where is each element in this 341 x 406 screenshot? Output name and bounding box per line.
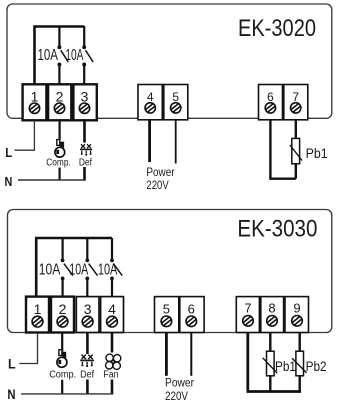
wire terminal 6 power neutral (bottom) — [190, 333, 192, 376]
label Fan (bottom) — [103, 370, 118, 381]
label Power 220V (bottom) — [165, 377, 194, 403]
svg-text:3: 3 — [84, 301, 92, 317]
svg-text:Pb1: Pb1 — [306, 145, 328, 161]
node switch S2 top — [82, 45, 86, 49]
wire terminal 4 to fan (bottom) — [111, 333, 114, 353]
wire fan to N (bottom) — [111, 380, 114, 394]
wire terminal 3 to defrost — [83, 121, 86, 143]
svg-text:2: 2 — [59, 301, 67, 317]
terminal 7 (EK-3020) — [284, 85, 308, 120]
label EK-3030 — [237, 216, 317, 243]
defrost heater icon (snowflake, bottom) — [80, 355, 94, 368]
svg-text:Fan: Fan — [103, 370, 118, 381]
svg-text:7: 7 — [244, 301, 251, 316]
wire bus L to switches (bottom) — [36, 238, 112, 297]
sensor Pb2 (EK-3030) — [292, 351, 306, 376]
node switch S3 top — [61, 259, 65, 263]
label Pb1 (top) — [306, 145, 328, 161]
svg-text:5: 5 — [172, 90, 179, 104]
node switch S1 bottom — [57, 63, 61, 67]
wire terminal 9 to sensor Pb2 — [299, 333, 301, 351]
terminal 3 (EK-3020) — [73, 84, 96, 120]
wire terminal 6 to sensor return — [269, 121, 271, 179]
terminal 8 (EK-3030) — [261, 297, 284, 333]
label Def (bottom) — [80, 370, 94, 381]
svg-text:4: 4 — [147, 90, 154, 104]
terminal 6 (EK-3030) — [180, 297, 204, 333]
svg-text:10A: 10A — [98, 261, 118, 278]
wire terminal 8 to sensor Pb1 — [269, 333, 271, 351]
controller outline EK-3020 — [7, 4, 332, 118]
svg-text:8: 8 — [268, 301, 275, 316]
wire terminal 5 power neutral — [175, 120, 177, 164]
fan M3 icon — [106, 354, 121, 369]
wire switch column 2 upper (3030) — [61, 238, 63, 259]
svg-text:N: N — [5, 174, 13, 189]
wire switch column 3 upper (3030) — [86, 238, 88, 259]
sensor Pb1 (EK-3030) — [263, 351, 277, 376]
svg-text:10A: 10A — [65, 47, 83, 64]
label Comp. (bottom) — [49, 370, 76, 381]
wire switch S4 to terminal 3 — [86, 280, 88, 297]
svg-text:EK-3030: EK-3030 — [237, 216, 317, 243]
node switch S5 bottom — [110, 277, 114, 281]
switch S5 blade 10A — [113, 264, 122, 276]
svg-text:Def: Def — [79, 157, 92, 168]
svg-text:2: 2 — [56, 88, 64, 104]
wire switch column 3 upper — [83, 26, 85, 46]
wire bus L to switches (top) — [35, 27, 85, 85]
wire defrost to N — [83, 167, 86, 181]
wire switch S1 to terminal 2 — [58, 66, 60, 84]
node L (bottom) — [8, 356, 16, 372]
wire sensor Pb1 to bus — [295, 164, 297, 179]
svg-text:1: 1 — [34, 301, 42, 317]
wire terminal 2 to compressor — [58, 121, 60, 140]
svg-text:4: 4 — [108, 301, 116, 317]
svg-text:9: 9 — [293, 301, 300, 316]
svg-text:N: N — [7, 386, 15, 402]
wire N bus (bottom) — [21, 393, 113, 395]
terminal 4 (EK-3030) — [101, 297, 124, 333]
switch S1 blade 10A — [61, 50, 69, 62]
node switch S4 top — [85, 259, 89, 263]
node L (top) — [5, 145, 12, 160]
wire terminal 2 to compressor (bottom) — [61, 333, 63, 352]
node N (top) — [5, 174, 13, 189]
svg-text:7: 7 — [292, 90, 299, 104]
svg-text:3: 3 — [81, 88, 89, 104]
value label 10A (S5) — [98, 261, 118, 278]
terminal 5 (EK-3030) — [155, 297, 179, 333]
label EK-3020 — [238, 15, 316, 42]
node switch S3 bottom — [61, 277, 65, 281]
terminal 6 (EK-3020) — [259, 85, 283, 120]
svg-text:L: L — [8, 356, 16, 372]
terminal 3 (EK-3030) — [76, 297, 99, 333]
svg-text:6: 6 — [267, 90, 274, 104]
wire terminal 5 power live (bottom) — [165, 333, 168, 376]
svg-text:10A: 10A — [38, 47, 59, 64]
wire switch column 2 upper — [58, 26, 60, 46]
svg-text:Power: Power — [146, 167, 174, 179]
wire defrost to N (bottom) — [86, 380, 89, 394]
terminal 2 (EK-3030) — [51, 297, 74, 333]
sensor Pb1 (EK-3020) — [290, 138, 302, 163]
wire sensor bottom bus (top) — [269, 177, 296, 179]
wire N bus (top) — [18, 179, 86, 181]
label Power 220V (top) — [146, 167, 174, 192]
terminal 2 (EK-3020) — [48, 84, 71, 120]
svg-text:10A: 10A — [39, 261, 61, 278]
node switch S2 bottom — [82, 63, 86, 67]
wire switch column 4 upper (3030) — [111, 238, 113, 259]
wire terminal 3 to defrost (bottom) — [86, 333, 89, 354]
value label 10A (S4) — [69, 261, 88, 278]
compressor M2 icon — [57, 350, 67, 368]
defrost heater icon (snowflake) — [80, 144, 92, 156]
wire switch S2 to terminal 3 — [83, 66, 85, 84]
svg-text:10A: 10A — [69, 261, 88, 278]
wire sensor Pb1 to bus (bottom) — [269, 376, 271, 392]
label Pb2 (bottom) — [306, 358, 327, 374]
svg-text:Def: Def — [80, 370, 94, 381]
terminal 7 (EK-3030) — [236, 297, 259, 333]
switch S2 blade 10A — [86, 50, 94, 62]
wire compressor to N (bottom) — [61, 380, 63, 394]
wire switch S3 to terminal 2 — [61, 280, 63, 297]
svg-text:5: 5 — [163, 301, 170, 316]
label Comp. — [46, 158, 71, 169]
svg-text:Comp.: Comp. — [49, 370, 76, 381]
wire terminal 7 sensor common — [246, 333, 249, 390]
terminal 1 (EK-3030) — [26, 297, 49, 333]
controller outline EK-3030 — [8, 210, 332, 333]
svg-text:220V: 220V — [165, 391, 188, 403]
wire sensor Pb2 to bus (bottom) — [299, 376, 301, 392]
terminal 4 (EK-3020) — [138, 85, 162, 120]
svg-text:Pb2: Pb2 — [306, 358, 327, 374]
node switch S5 top — [110, 259, 114, 263]
value label 10A (S2) — [65, 47, 83, 64]
node N (bottom) — [7, 386, 15, 402]
wire switch S5 to terminal 4 — [111, 280, 113, 297]
value label 10A (S1) — [38, 47, 59, 64]
svg-text:220V: 220V — [146, 180, 169, 192]
terminal 9 (EK-3030) — [285, 297, 309, 333]
terminal 1 (EK-3020) — [23, 84, 47, 120]
node switch S1 top — [57, 45, 61, 49]
switch S3 blade 10A — [64, 264, 73, 276]
node switch S4 bottom — [85, 277, 89, 281]
wire L to terminal 1 — [15, 121, 35, 151]
svg-text:Power: Power — [165, 377, 194, 389]
svg-text:L: L — [5, 145, 12, 160]
svg-text:1: 1 — [31, 88, 39, 104]
label Pb1 (bottom) — [275, 358, 296, 374]
wire terminal 7 to sensor Pb1 — [295, 121, 297, 139]
value label 10A (S3) — [39, 261, 61, 278]
svg-text:6: 6 — [188, 301, 195, 316]
wire compressor to N — [58, 168, 60, 181]
compressor M1 icon — [55, 140, 65, 158]
switch S4 blade 10A — [89, 264, 98, 276]
label Def — [79, 157, 92, 168]
wire L to terminal 1 (bottom) — [19, 333, 37, 364]
terminal 5 (EK-3020) — [164, 85, 188, 120]
svg-text:EK-3020: EK-3020 — [238, 15, 316, 42]
svg-text:Comp.: Comp. — [46, 158, 71, 169]
wire terminal 4 power live — [148, 119, 151, 162]
wire sensor bottom bus (bottom) — [247, 390, 302, 393]
svg-text:Pb1: Pb1 — [275, 358, 296, 374]
